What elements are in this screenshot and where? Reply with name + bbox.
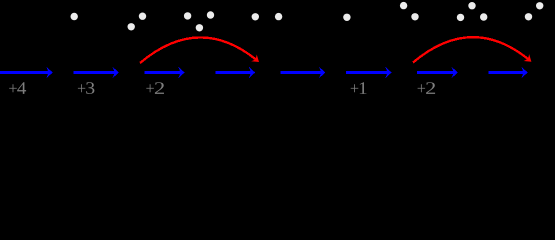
dot group 8 (two dots) [525,2,544,20]
dot group 6 (two dots) [400,2,419,21]
label +1 [351,82,367,94]
blue arrow 6 [346,67,391,79]
blue arrow 1 [0,67,53,79]
blue arrow 2 [74,67,119,79]
dot group 7 (three dots) [457,2,488,21]
dot group 1 (one dot) [71,13,78,20]
blue arrow 5 [281,67,326,79]
blue arrow 3 [145,67,185,79]
label +2 (second) [418,82,435,94]
red arc 2 [413,37,531,62]
dot group 4 (two dots) [252,13,283,21]
blue arrow 7 [417,67,458,79]
dot group 3 (three dots) [184,11,214,31]
blue arrow 4 [215,67,255,79]
blue arrow 8 [489,67,528,79]
dot group 5 (one dot) [343,14,350,21]
red arc 1 [140,37,259,63]
label +4 [9,82,26,94]
dot group 2 (two dots) [128,13,147,31]
label +3 [78,82,94,94]
label +2 (first) [146,82,164,94]
